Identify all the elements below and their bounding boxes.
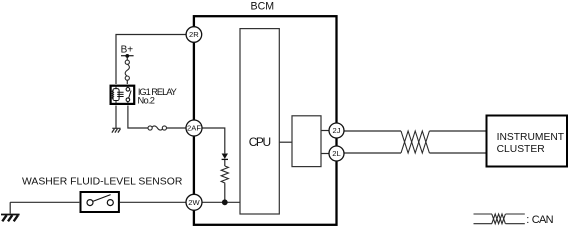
svg-text:CPU: CPU — [249, 135, 271, 149]
svg-text:No.2: No.2 — [138, 96, 155, 106]
svg-text:INSTRUMENT: INSTRUMENT — [497, 132, 565, 143]
svg-text:B+: B+ — [121, 44, 134, 55]
svg-text:BCM: BCM — [251, 1, 275, 13]
svg-text:2J: 2J — [332, 126, 340, 135]
svg-text:CLUSTER: CLUSTER — [497, 144, 545, 155]
svg-text:WASHER FLUID-LEVEL SENSOR: WASHER FLUID-LEVEL SENSOR — [22, 177, 183, 188]
svg-text:2L: 2L — [332, 149, 340, 158]
svg-text:2R: 2R — [189, 30, 199, 39]
svg-text:CAN: CAN — [532, 214, 554, 226]
svg-text:2W: 2W — [188, 198, 200, 207]
svg-text:2AF: 2AF — [187, 124, 201, 133]
svg-text::: : — [526, 214, 529, 226]
